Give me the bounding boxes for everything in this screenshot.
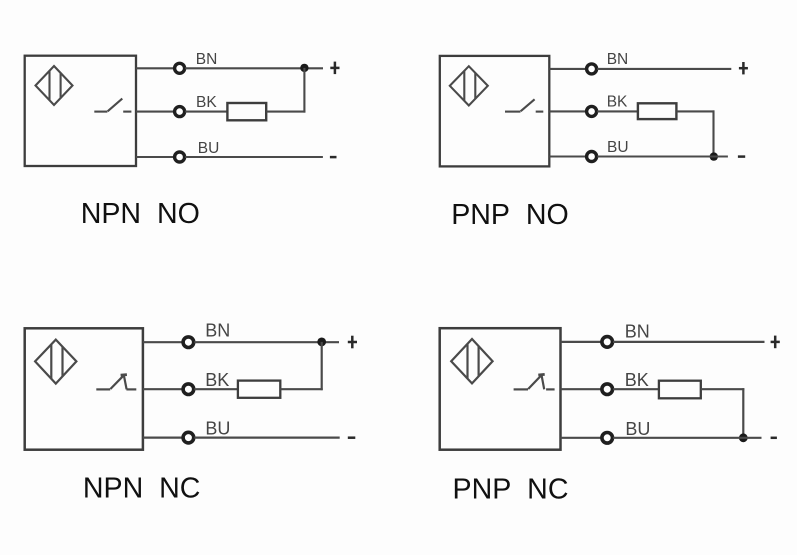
- switch S3 (NC contact): [96, 375, 136, 390]
- proximity sensor symbol (diamond) U1: [36, 66, 73, 105]
- junction node on plus rail: [317, 338, 326, 347]
- sensor box U2: [440, 56, 550, 166]
- terminal BU (pin 3): [183, 432, 194, 443]
- wire BU from box to terminal: [561, 437, 602, 439]
- wire BK to load: [185, 111, 227, 113]
- svg-text:PNP NC: PNP NC: [453, 473, 569, 505]
- terminal BK (pin 4): [587, 106, 597, 116]
- wire load to corner: [266, 111, 305, 113]
- wire BK from box to terminal: [561, 388, 602, 390]
- terminal BU (pin 3): [175, 152, 185, 162]
- plus terminal: [739, 62, 748, 74]
- minus terminal: [771, 437, 777, 440]
- svg-text:BN: BN: [205, 320, 230, 340]
- plus terminal: [771, 336, 780, 349]
- switch S2 (NO contact): [505, 99, 543, 111]
- plus terminal: [348, 336, 357, 349]
- wire BK from box to terminal: [549, 110, 586, 112]
- wire BN from box to terminal: [143, 341, 183, 343]
- svg-text:BN: BN: [196, 51, 218, 68]
- minus terminal: [330, 156, 337, 159]
- terminal BK (pin 4): [602, 384, 613, 395]
- wire BU to minus rail: [194, 437, 339, 439]
- wire BN from box to terminal: [549, 68, 586, 70]
- terminal BU (pin 3): [587, 152, 597, 162]
- svg-text:BU: BU: [625, 419, 650, 439]
- wire BU from box to terminal: [549, 155, 586, 157]
- proximity sensor symbol (diamond) U3: [35, 340, 76, 384]
- svg-text:BK: BK: [196, 94, 217, 111]
- wire BK to load: [597, 110, 638, 112]
- wire BK from box to terminal: [143, 388, 183, 390]
- wire load to corner: [701, 388, 745, 390]
- wire BK to load: [194, 388, 238, 390]
- load resistor RL1: [227, 103, 266, 120]
- svg-text:NPN NO: NPN NO: [81, 198, 200, 230]
- wire BU to minus rail: [185, 156, 323, 158]
- terminal BN (pin 1): [175, 63, 185, 73]
- switch S1 (NO contact): [94, 99, 131, 112]
- wire load to corner: [676, 110, 714, 112]
- wire BN from box to terminal: [561, 341, 602, 343]
- wire corner up to junction node: [321, 342, 323, 390]
- minus terminal: [348, 436, 356, 439]
- switch S4 (NC contact): [514, 374, 555, 389]
- sensor box U4: [440, 328, 561, 450]
- wire BN to plus rail: [185, 67, 323, 69]
- wire corner up to junction node: [303, 68, 305, 113]
- wire load to corner: [280, 388, 322, 390]
- wire corner down to junction node: [712, 110, 714, 156]
- terminal BK (pin 4): [175, 107, 185, 117]
- junction node on minus rail: [710, 152, 718, 160]
- wire BU to minus rail: [613, 437, 761, 439]
- proximity sensor symbol (diamond) U2: [450, 66, 488, 105]
- proximity sensor symbol (diamond) U4: [451, 339, 492, 383]
- svg-text:BK: BK: [205, 370, 229, 390]
- plus terminal: [330, 62, 339, 75]
- load resistor RL4: [659, 381, 701, 399]
- wire BN to plus rail: [597, 68, 731, 70]
- svg-text:BU: BU: [607, 139, 629, 156]
- svg-text:BU: BU: [205, 419, 230, 439]
- wire corner down to junction node: [742, 388, 744, 438]
- svg-text:BN: BN: [607, 51, 629, 68]
- svg-text:BU: BU: [198, 140, 220, 157]
- svg-text:NPN NC: NPN NC: [83, 472, 201, 504]
- wire BN to plus rail: [613, 341, 764, 343]
- load resistor RL2: [638, 103, 677, 119]
- sensor box U3: [25, 328, 143, 449]
- svg-text:PNP NO: PNP NO: [451, 199, 569, 231]
- wire BU to minus rail: [597, 155, 728, 157]
- wire BN from box to terminal: [136, 67, 174, 69]
- terminal BN (pin 1): [602, 337, 613, 348]
- svg-text:BK: BK: [625, 370, 649, 390]
- wire BK from box to terminal: [136, 111, 174, 113]
- load resistor RL3: [238, 381, 280, 398]
- svg-text:BK: BK: [607, 94, 628, 111]
- junction node on plus rail: [300, 64, 308, 72]
- terminal BN (pin 1): [183, 337, 194, 348]
- junction node on minus rail: [739, 433, 748, 442]
- svg-text:BN: BN: [625, 321, 650, 341]
- terminal BU (pin 3): [602, 433, 613, 444]
- wire BU from box to terminal: [143, 437, 183, 439]
- minus terminal: [738, 155, 745, 158]
- wire BN to plus rail: [194, 341, 339, 343]
- terminal BN (pin 1): [587, 64, 597, 74]
- wire BU from box to terminal: [136, 156, 174, 158]
- sensor box U1: [25, 56, 136, 166]
- terminal BK (pin 4): [183, 384, 194, 395]
- wire BK to load: [613, 388, 659, 390]
